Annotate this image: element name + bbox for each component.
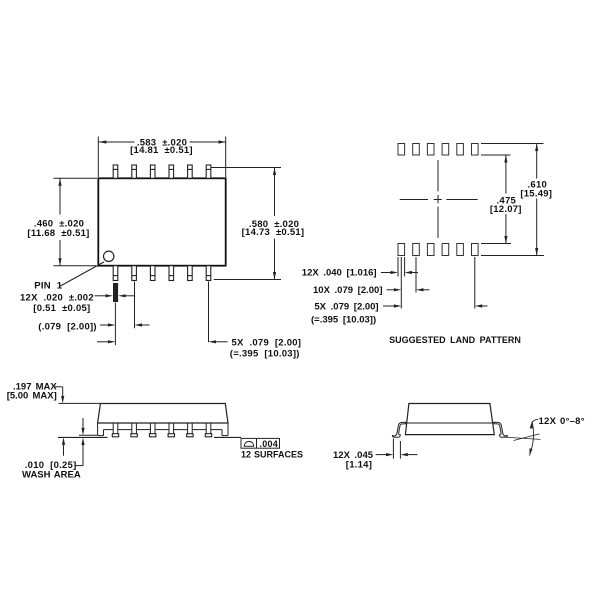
svg-text:(=.395 [10.03]): (=.395 [10.03]) xyxy=(311,315,376,326)
pin 2 top lead xyxy=(132,165,137,178)
svg-text:12X 0°–8°: 12X 0°–8° xyxy=(539,416,585,427)
pin 12 bottom lead xyxy=(113,266,118,281)
svg-text:PIN 1: PIN 1 xyxy=(34,280,62,291)
pin 1 index circle xyxy=(104,251,114,261)
pad 2 centerline extension xyxy=(415,257,417,293)
dimension .475 text xyxy=(490,195,522,215)
pin 4 top lead xyxy=(169,165,174,178)
dimension 5X .079 arrows xyxy=(97,340,228,343)
dimension .580 line and arrows xyxy=(273,168,276,280)
side view lead 11 xyxy=(187,423,193,437)
dimension .197 MAX leader and arrows xyxy=(55,387,65,456)
land pad bottom 3 xyxy=(427,244,434,256)
land pad top 6 xyxy=(472,144,479,156)
land pattern centerline crosshair xyxy=(400,160,478,238)
end view parting line xyxy=(405,422,495,424)
end view right gull-wing lead xyxy=(494,422,507,437)
svg-text:.004: .004 xyxy=(260,439,279,449)
svg-text:[15.49]: [15.49] xyxy=(520,188,552,199)
land pattern extension lines right xyxy=(481,144,544,256)
pin 12 centerline xyxy=(208,282,210,343)
dimension .583 text xyxy=(130,138,193,157)
dimension .475 line and arrows xyxy=(504,155,507,244)
dimension .460 extension lines xyxy=(54,178,98,265)
svg-text:(.079 [2.00]): (.079 [2.00]) xyxy=(38,321,97,332)
dimension 12X .040 arrows xyxy=(381,271,418,274)
svg-text:[14.73 ±0.51]: [14.73 ±0.51] xyxy=(242,227,305,238)
pin 8 bottom lead xyxy=(188,266,193,281)
dimension .580 extension lines xyxy=(211,168,281,280)
svg-text:[12.07]: [12.07] xyxy=(490,204,522,215)
side view right end lead xyxy=(222,423,228,436)
svg-text:[0.51 ±0.05]: [0.51 ±0.05] xyxy=(33,303,90,314)
SUGGESTED LAND PATTERN caption xyxy=(389,335,521,345)
svg-text:[14.81 ±0.51]: [14.81 ±0.51] xyxy=(130,145,193,156)
dimension .610 text xyxy=(520,180,552,200)
dimension .583 line and arrows xyxy=(99,140,226,143)
side view lead 8 xyxy=(131,423,137,437)
top view body outline xyxy=(98,178,225,265)
lead foot angle reference lines xyxy=(503,434,541,441)
svg-text:10X .079 [2.00]: 10X .079 [2.00] xyxy=(313,285,383,296)
dimension (.079) arrows xyxy=(100,323,150,326)
side view lead 12 xyxy=(205,423,211,437)
dimension 10X .079 text xyxy=(313,285,383,296)
dimension 12X .020 text xyxy=(20,293,94,315)
land pad bottom 1 xyxy=(398,244,405,256)
pad 6 centerline extension xyxy=(474,257,476,309)
dimension 12X .020 arrows xyxy=(95,294,135,297)
side view body outline xyxy=(98,404,228,424)
svg-text:5X .079 [2.00]: 5X .079 [2.00] xyxy=(314,302,378,313)
land pad bottom 2 xyxy=(413,244,420,256)
dimension 12X .045 text xyxy=(333,450,374,470)
side view far lead shoulder line xyxy=(104,429,223,431)
pin 10 bottom lead xyxy=(150,266,155,281)
pin 11 bottom lead xyxy=(132,266,137,281)
pad 1 right edge extension xyxy=(404,257,406,277)
svg-text:12 SURFACES: 12 SURFACES xyxy=(241,449,303,459)
land pad top 3 xyxy=(427,144,434,156)
seating plane line xyxy=(58,436,241,438)
dimension 12X .045 extension lines xyxy=(393,439,400,459)
dimension .010 arrows xyxy=(75,418,85,466)
dimension .010 text xyxy=(22,460,81,481)
lead cross-section (blackened pin 7) xyxy=(113,283,118,302)
pin 1 top lead xyxy=(113,165,118,178)
pin 8 centerline xyxy=(134,282,136,329)
svg-text:[1.14]: [1.14] xyxy=(346,459,372,470)
pin 7 bottom lead xyxy=(206,266,211,281)
svg-text:5X .079 [2.00]: 5X .079 [2.00] xyxy=(232,338,302,349)
svg-text:(=.395 [10.03]): (=.395 [10.03]) xyxy=(230,348,300,359)
pin 6 top lead xyxy=(206,165,211,178)
land pad top 2 xyxy=(413,144,420,156)
land pad top 4 xyxy=(442,144,449,156)
svg-text:SUGGESTED LAND PATTERN: SUGGESTED LAND PATTERN xyxy=(389,335,521,345)
side view lead 7 xyxy=(112,423,118,437)
pin 7 centerline xyxy=(114,303,116,346)
PIN 1 label and leader xyxy=(34,262,104,291)
12 SURFACES note xyxy=(241,449,303,459)
wash area standoff line xyxy=(79,434,97,436)
end view body outline xyxy=(405,404,494,435)
pin 5 top lead xyxy=(188,165,193,178)
angle callout leader xyxy=(532,419,538,424)
pad 1 left edge extension xyxy=(397,257,399,277)
dimension (.079) text xyxy=(38,321,97,332)
land pad bottom 6 xyxy=(472,244,479,256)
dimension .197 MAX text xyxy=(7,382,58,402)
svg-text:[11.68 ±0.51]: [11.68 ±0.51] xyxy=(27,228,89,239)
pad 1 centerline extension xyxy=(400,257,402,309)
svg-text:[5.00 MAX]: [5.00 MAX] xyxy=(7,391,57,402)
land pad top 1 xyxy=(398,144,405,156)
angle dimension arc xyxy=(530,422,534,456)
svg-text:WASH AREA: WASH AREA xyxy=(22,470,81,481)
dimension .460 text xyxy=(27,218,89,239)
dimension 5X .079 land text xyxy=(311,302,379,326)
pin 3 top lead xyxy=(150,165,155,178)
dimension 5X .079 text xyxy=(230,338,301,360)
dimension 12X .045 arrows xyxy=(376,453,418,456)
svg-text:12X .040 [1.016]: 12X .040 [1.016] xyxy=(302,268,377,279)
dimension 5X .079 land arrows xyxy=(383,304,488,307)
end view left gull-wing lead xyxy=(392,422,405,437)
dimension 10X .079 arrows xyxy=(387,288,430,291)
side view lead 9 xyxy=(150,423,156,437)
dimension 12X .040 text xyxy=(302,268,377,279)
dimension .580 text xyxy=(242,219,305,238)
dimension .610 line and arrows xyxy=(535,144,538,256)
flatness feature control frame xyxy=(241,438,280,449)
svg-text:12X .020 ±.002: 12X .020 ±.002 xyxy=(20,293,94,304)
angle callout text xyxy=(539,416,585,427)
dimension .583 extension lines xyxy=(98,137,225,178)
land pad bottom 5 xyxy=(457,244,464,256)
land pad bottom 4 xyxy=(442,244,449,256)
side view left end lead xyxy=(98,423,104,436)
land pad top 5 xyxy=(457,144,464,156)
pin 9 bottom lead xyxy=(169,266,174,281)
side view body top extension line xyxy=(59,402,101,404)
dimension .460 line and arrows xyxy=(58,178,61,265)
side view lead 10 xyxy=(168,423,174,437)
